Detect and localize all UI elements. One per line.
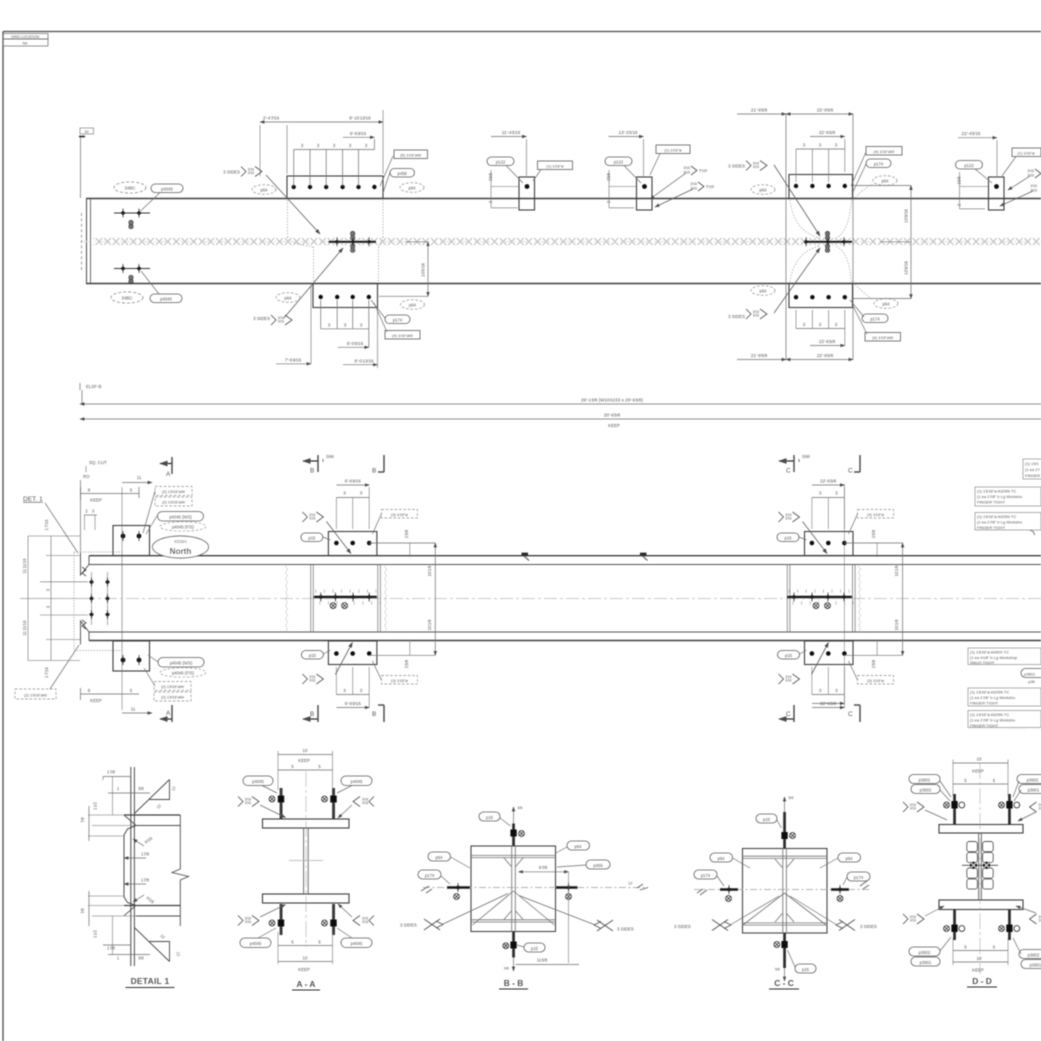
svg-text:SQ. CUT: SQ. CUT [89,460,107,465]
svg-text:(2) 1 5⁄16"⌀W: (2) 1 5⁄16"⌀W [24,693,47,698]
svg-text:C - C: C - C [774,978,794,988]
stiffener/plates C section flags [779,460,794,462]
svg-text:p122: p122 [964,163,974,168]
svg-text:B: B [310,711,314,718]
svg-text:10: 10 [977,956,982,961]
end dashed tick [81,213,83,270]
svg-text:30: 30 [84,130,88,134]
stiffener/plates C plate leader diagonals [803,522,828,554]
svg-text:12: 12 [628,881,633,886]
stiffener/plates C top plate [805,532,854,556]
end bottom plate [113,641,150,671]
svg-text:1 7⁄8: 1 7⁄8 [107,770,116,775]
svg-text:(5) 1⁄16"⌀W: (5) 1⁄16"⌀W [400,152,421,157]
svg-text:DETAIL 1: DETAIL 1 [131,976,170,986]
svg-text:p174: p174 [874,161,884,166]
svg-text:TYP: TYP [706,185,714,190]
A4 long extension verticals [785,114,787,360]
svg-text:7⁄8: 7⁄8 [80,908,85,914]
svg-text:(1) 1 5⁄16"⌀ A325N TC: (1) 1 5⁄16"⌀ A325N TC [970,712,1009,717]
svg-text:p4045: p4045 [250,941,262,946]
svg-text:DET. 1: DET. 1 [23,496,43,503]
svg-text:2: 2 [488,200,493,203]
svg-text:(1) 1 5⁄16"⌀ A325N TC: (1) 1 5⁄16"⌀ A325N TC [970,690,1009,695]
svg-text:3⁄16: 3⁄16 [1027,169,1034,173]
svg-text:(1 ea 2 7⁄8" b Lg Worksho: (1 ea 2 7⁄8" b Lg Worksho [977,494,1023,499]
svg-text:A: A [166,471,171,478]
svg-text:p15: p15 [486,815,494,820]
svg-text:p456: p456 [593,863,603,868]
svg-text:5: 5 [993,945,996,950]
svg-text:1 1⁄2: 1 1⁄2 [93,929,98,938]
bottom flange [124,905,180,907]
svg-text:D - D: D - D [972,976,992,986]
centerline dash [80,241,1041,243]
bottom end dims [80,688,82,700]
A1 bottom-left labels [276,293,300,303]
A4 bottom plate [789,284,853,308]
stiffener/plates C top dims [812,485,845,708]
svg-text:(1 ea 2 7⁄8" b Lg Worksho: (1 ea 2 7⁄8" b Lg Worksho [970,718,1016,723]
svg-text:FINGER TIGHT: FINGER TIGHT [970,723,999,728]
svg-text:p4045 (F/S): p4045 (F/S) [172,670,195,675]
svg-text:(1) 1⁄16"⌀: (1) 1⁄16"⌀ [546,163,564,168]
svg-text:11: 11 [137,475,142,480]
svg-text:3: 3 [365,143,368,148]
svg-text:p3601: p3601 [1030,962,1041,967]
svg-text:p122: p122 [496,159,506,164]
long C extension vertical [843,484,845,703]
svg-text:34BC: 34BC [122,296,133,301]
svg-text:2 5⁄8: 2 5⁄8 [488,172,493,181]
svg-text:KEEP: KEEP [90,698,102,703]
svg-text:(3) 1⁄16"⌀: (3) 1⁄16"⌀ [391,512,408,517]
A1 bottom dim lines [320,300,322,329]
svg-text:22'-6 5⁄8: 22'-6 5⁄8 [820,701,836,706]
svg-text:p4045: p4045 [351,941,363,946]
A1 bottom plate [313,284,378,308]
svg-text:(1 ea 2 7⁄8" b Lg Worksho: (1 ea 2 7⁄8" b Lg Worksho [977,520,1023,525]
centerline x-chain pattern [93,237,1041,246]
svg-text:2 5⁄8: 2 5⁄8 [606,172,611,181]
svg-text:1: 1 [117,786,120,791]
svg-text:(3) 1⁄16"⌀: (3) 1⁄16"⌀ [867,678,884,683]
svg-text:3 SIDES: 3 SIDES [617,927,634,932]
svg-text:North: North [170,547,192,556]
svg-text:6'-0 5⁄16: 6'-0 5⁄16 [347,341,364,346]
stiffener/plates B stiffeners [310,565,312,632]
svg-text:3 SIDES: 3 SIDES [253,316,270,321]
svg-text:5: 5 [964,945,967,950]
ovals / labels [428,852,451,861]
ovals [243,776,273,786]
svg-text:6'-6 9⁄16: 6'-6 9⁄16 [345,701,361,706]
svg-text:p64: p64 [846,856,854,861]
end top plate [113,526,150,556]
svg-text:KEEP: KEEP [298,967,310,972]
svg-text:3⁄16: 3⁄16 [690,182,697,186]
svg-text:1 7⁄8: 1 7⁄8 [141,852,150,857]
svg-text:5⁄8: 5⁄8 [518,806,523,810]
SECTION C-C [674,796,877,989]
beam top flange [89,555,1041,557]
svg-text:3: 3 [835,688,838,693]
svg-text:10 1⁄8: 10 1⁄8 [894,619,899,630]
A4 dotted hidden diagonals [790,200,820,238]
svg-text:p4045: p4045 [252,779,264,784]
stiffener/plates B top plate [328,532,377,556]
bottom rod [783,933,786,968]
svg-text:8: 8 [88,688,91,693]
svg-text:(1) 1⁄16"⌀: (1) 1⁄16"⌀ [1017,150,1035,155]
left end bottom bolt row [114,268,150,270]
svg-text:p174: p174 [701,873,711,878]
svg-text:20'-6 5⁄8: 20'-6 5⁄8 [604,413,621,418]
svg-text:2 5⁄8: 2 5⁄8 [871,529,876,538]
svg-text:10 9⁄16: 10 9⁄16 [904,209,909,223]
stiffener/plates C stiffeners [786,565,788,632]
top rod [512,824,515,847]
svg-text:3: 3 [343,491,346,496]
svg-text:1 7⁄8: 1 7⁄8 [141,878,150,883]
svg-text:29'-1 5⁄8 (W10X233 x 29'-6 5⁄: 29'-1 5⁄8 (W10X233 x 29'-6 5⁄8) [581,398,643,403]
hidden column dotted rect [74,552,122,651]
svg-text:10: 10 [977,757,982,762]
tag 30 at end [80,128,94,134]
svg-text:TYP: TYP [699,169,707,174]
svg-text:B: B [310,468,314,475]
svg-text:10 1⁄8: 10 1⁄8 [894,565,899,576]
A1 hidden dotted edges [287,200,289,237]
svg-text:N4: N4 [23,42,28,46]
svg-text:21'-9 5⁄8: 21'-9 5⁄8 [751,353,768,358]
horizontal centerline with bolts [423,887,648,889]
A4 top plate [789,175,853,199]
svg-text:(2) 1 5⁄16"⌀W: (2) 1 5⁄16"⌀W [161,684,184,689]
beam bottom edge (plan) [86,283,1041,285]
A1 web bolt cluster [329,241,377,243]
svg-text:p4045 (N/S): p4045 (N/S) [170,661,193,666]
svg-text:p4045 (F/S): p4045 (F/S) [172,524,195,529]
A1 top plate [287,176,383,199]
svg-text:10: 10 [303,748,308,753]
svg-text:3 SIDES: 3 SIDES [400,923,417,928]
svg-text:SIM: SIM [802,454,810,459]
weld flags [238,797,259,807]
svg-text:6'-6 9⁄16: 6'-6 9⁄16 [345,479,361,484]
svg-text:R 5⁄8: R 5⁄8 [144,835,154,845]
center axis [305,771,307,947]
sheet border left [2,32,4,1041]
stiffener/plates B bolt note boxes [381,510,417,519]
svg-text:p456: p456 [398,171,408,176]
stiffener/plates B section flags [303,460,318,462]
svg-text:9 7⁄8: 9 7⁄8 [539,865,548,870]
svg-text:B - B: B - B [504,978,524,988]
flange clip marks [522,553,529,556]
svg-text:p174: p174 [425,873,435,878]
svg-text:A: A [166,710,171,717]
svg-text:p3602: p3602 [920,787,932,792]
svg-text:2 5⁄8: 2 5⁄8 [404,529,409,538]
svg-text:p64: p64 [261,187,269,192]
web [303,828,305,894]
svg-text:10 1⁄8: 10 1⁄8 [427,565,432,576]
svg-text:KEEP: KEEP [90,498,102,503]
dims bottom [278,932,333,964]
svg-text:p64: p64 [882,178,890,183]
svg-text:C: C [786,711,791,718]
keep dim line [80,418,1041,420]
svg-text:5: 5 [993,778,996,783]
svg-text:22'-4 5⁄16: 22'-4 5⁄16 [962,131,981,136]
top rods [953,794,956,825]
A4 bottom left [751,286,775,296]
corner ovals [909,775,1041,969]
svg-text:(4) 1⁄16"⌀W: (4) 1⁄16"⌀W [392,333,413,338]
svg-text:3: 3 [819,491,822,496]
svg-text:11'-4 5⁄16: 11'-4 5⁄16 [502,130,521,135]
svg-text:3: 3 [344,323,347,328]
svg-text:5: 5 [291,940,294,945]
svg-text:22'-6 5⁄8: 22'-6 5⁄8 [819,339,836,344]
wavy hidden stiffener hatches [286,566,288,632]
svg-text:p3601: p3601 [1024,671,1036,676]
svg-text:K016A: K016A [174,539,187,544]
svg-text:1 1⁄2: 1 1⁄2 [93,801,98,810]
svg-text:1 7⁄16: 1 7⁄16 [44,667,49,678]
svg-text:3: 3 [317,143,320,148]
svg-text:5: 5 [964,778,967,783]
svg-text:p15: p15 [763,817,771,822]
top rods [280,788,283,819]
sheet border top [3,31,1041,33]
svg-text:(2) 1 5⁄16"⌀W: (2) 1 5⁄16"⌀W [162,489,185,494]
svg-text:3⁄16: 3⁄16 [683,166,690,170]
svg-text:22'-9 5⁄8: 22'-9 5⁄8 [817,108,834,113]
svg-text:C: C [786,468,791,475]
svg-text:3: 3 [819,322,822,327]
svg-text:p64: p64 [718,856,726,861]
clip A5 [956,131,1041,210]
top flange [263,819,350,828]
svg-text:1 7⁄16: 1 7⁄16 [44,519,49,530]
svg-text:p64: p64 [409,302,417,307]
svg-text:GRID LOCATION: GRID LOCATION [11,35,39,39]
bottom rod [512,932,515,958]
svg-text:8'-10 13⁄16: 8'-10 13⁄16 [349,116,371,121]
svg-text:3: 3 [819,143,822,148]
svg-text:p174: p174 [854,875,864,880]
svg-text:6'-6 9⁄16: 6'-6 9⁄16 [350,131,367,136]
svg-text:5⁄8: 5⁄8 [138,786,144,791]
svg-text:12: 12 [159,933,166,940]
left dimension chains [20,536,88,661]
svg-text:3: 3 [92,509,95,514]
svg-text:p4045 (N/S): p4045 (N/S) [169,515,192,520]
svg-text:5⁄8: 5⁄8 [504,967,509,971]
svg-text:FINGER: FINGER [1025,473,1040,478]
svg-text:11: 11 [131,707,136,712]
svg-text:p15: p15 [309,653,317,658]
clip A2 [487,130,573,210]
svg-text:3: 3 [333,143,336,148]
stiffener/plates B top dims [336,485,369,708]
svg-text:12: 12 [171,785,177,791]
svg-text:p3602: p3602 [1028,952,1040,957]
svg-text:3: 3 [46,588,51,591]
overall length dim line [80,403,1041,405]
svg-text:p3601: p3601 [919,777,931,782]
clip A3 [605,130,714,210]
top flange [124,814,180,816]
end plate label stack [155,487,192,496]
svg-text:11 11⁄16: 11 11⁄16 [22,620,27,636]
svg-text:3: 3 [835,143,838,148]
svg-text:p174: p174 [870,316,880,321]
svg-text:p64: p64 [409,185,417,190]
svg-text:5: 5 [318,940,321,945]
ovals [710,853,733,862]
svg-text:10 5⁄16: 10 5⁄16 [421,263,426,277]
svg-text:22'-6 5⁄8: 22'-6 5⁄8 [820,479,836,484]
A1 vertical dim 10-5/16 [405,241,428,243]
stiffener/plates B plate leader diagonals [326,522,351,554]
svg-text:p15: p15 [802,967,810,972]
svg-text:2'-4 7⁄16: 2'-4 7⁄16 [263,116,280,121]
svg-text:B: B [372,468,376,475]
svg-text:p3602: p3602 [1027,777,1039,782]
A4 bottom-right labels [874,299,898,309]
svg-text:1: 1 [117,956,120,961]
bottom rods [953,910,956,941]
svg-text:11 5⁄8: 11 5⁄8 [537,958,548,963]
svg-text:p64: p64 [575,844,583,849]
svg-text:8: 8 [88,488,91,493]
beam left end double line [86,199,88,284]
web centerline [60,598,1041,600]
svg-text:2: 2 [606,200,611,203]
web with access holes [124,826,136,906]
weld note box bottom-left [15,689,56,699]
end plate [130,767,132,966]
ELEV2 [286,454,1041,730]
svg-text:p4045: p4045 [351,779,363,784]
svg-text:3: 3 [343,688,346,693]
splice nut stack [967,842,993,890]
svg-text:3: 3 [349,143,352,148]
top bevel + slope triangle [134,780,169,814]
bottom flange [263,894,350,903]
stiffener/plates C bottom plate [805,641,854,665]
A1 leader diagonals [266,175,320,234]
svg-text:p64: p64 [285,295,293,300]
svg-text:2: 2 [957,203,962,206]
end bolt group 2x3 [91,572,93,625]
svg-text:(1 ea 2 7: (1 ea 2 7 [1025,467,1041,472]
svg-text:p64: p64 [436,855,444,860]
diagonals [473,891,514,925]
svg-text:22'-6 5⁄8: 22'-6 5⁄8 [819,130,836,135]
DETAIL 1 [80,767,189,988]
svg-text:3: 3 [835,491,838,496]
svg-text:3: 3 [803,143,806,148]
svg-text:3: 3 [835,322,838,327]
svg-text:5⁄8: 5⁄8 [138,956,144,961]
svg-text:3 SIDES: 3 SIDES [860,924,877,929]
web verticals [511,846,513,932]
svg-text:3: 3 [46,605,51,608]
svg-text:C: C [848,468,853,475]
stiffener/plates C bolt note boxes [858,510,894,519]
svg-text:.......: ....... [1008,725,1026,730]
bottom bevel + slope triangle [134,928,169,962]
svg-text:34BC: 34BC [125,186,136,191]
svg-text:3: 3 [819,688,822,693]
svg-text:FINGER TIGHT: FINGER TIGHT [977,525,1006,530]
svg-text:(1 ea 2 7⁄8" b Lg Worksho: (1 ea 2 7⁄8" b Lg Worksho [970,695,1016,700]
North tag [153,536,209,558]
svg-text:(1) 1 5⁄1: (1) 1 5⁄1 [1025,461,1039,466]
A4 dims [737,114,911,360]
svg-text:p4045: p4045 [160,296,172,301]
svg-text:(1) 1⁄16"⌀: (1) 1⁄16"⌀ [664,147,682,152]
svg-text:3: 3 [803,322,806,327]
svg-text:10: 10 [303,956,308,961]
weld flags [903,802,924,812]
svg-text:KEEP: KEEP [608,423,620,428]
svg-text:p122: p122 [614,159,624,164]
left dims top [88,814,124,816]
svg-text:p3601: p3601 [920,960,932,965]
svg-text:R 5⁄8: R 5⁄8 [145,895,155,905]
svg-text:1 7⁄8: 1 7⁄8 [107,946,116,951]
svg-text:12: 12 [155,803,162,810]
stiffener/plates B vertical dim chain [369,543,435,655]
svg-text:2: 2 [85,509,88,514]
svg-text:5⁄8: 5⁄8 [789,796,794,800]
svg-text:3⁄16: 3⁄16 [1030,184,1037,188]
bottom rods [280,904,283,935]
svg-text:SNUG TIGHT: SNUG TIGHT [970,660,995,665]
dims [953,760,1008,966]
svg-text:p15: p15 [308,535,316,540]
svg-text:KEEP: KEEP [972,769,984,774]
svg-text:3: 3 [360,491,363,496]
beam end cope [81,553,105,645]
stiffener/plates C web bolt row [787,596,852,598]
SECTION B-B [400,806,648,989]
svg-text:21'-9 5⁄8: 21'-9 5⁄8 [751,108,768,113]
svg-text:13'-2 5⁄16: 13'-2 5⁄16 [619,130,638,135]
svg-text:3 SIDES: 3 SIDES [223,170,240,175]
svg-text:KEEP: KEEP [972,968,984,973]
PLAN5 [15,383,1041,722]
stiffener/plates B weld flags [302,512,323,522]
stiffener/plates B web bolt row [314,596,377,598]
svg-text:(3) 1⁄16"⌀: (3) 1⁄16"⌀ [391,678,408,683]
svg-text:A - A: A - A [297,979,316,989]
svg-text:3: 3 [301,143,304,148]
svg-text:(1) 1 5⁄16"⌀ A490X TC: (1) 1 5⁄16"⌀ A490X TC [970,650,1009,655]
svg-text:10 1⁄8: 10 1⁄8 [427,619,432,630]
stiffener/plates B bottom plate [328,641,377,665]
svg-text:5: 5 [318,764,321,769]
svg-text:FINGER TIGHT: FINGER TIGHT [977,500,1006,505]
svg-text:p174: p174 [393,317,403,322]
svg-text:5⁄8: 5⁄8 [775,968,780,972]
svg-text:3: 3 [360,688,363,693]
